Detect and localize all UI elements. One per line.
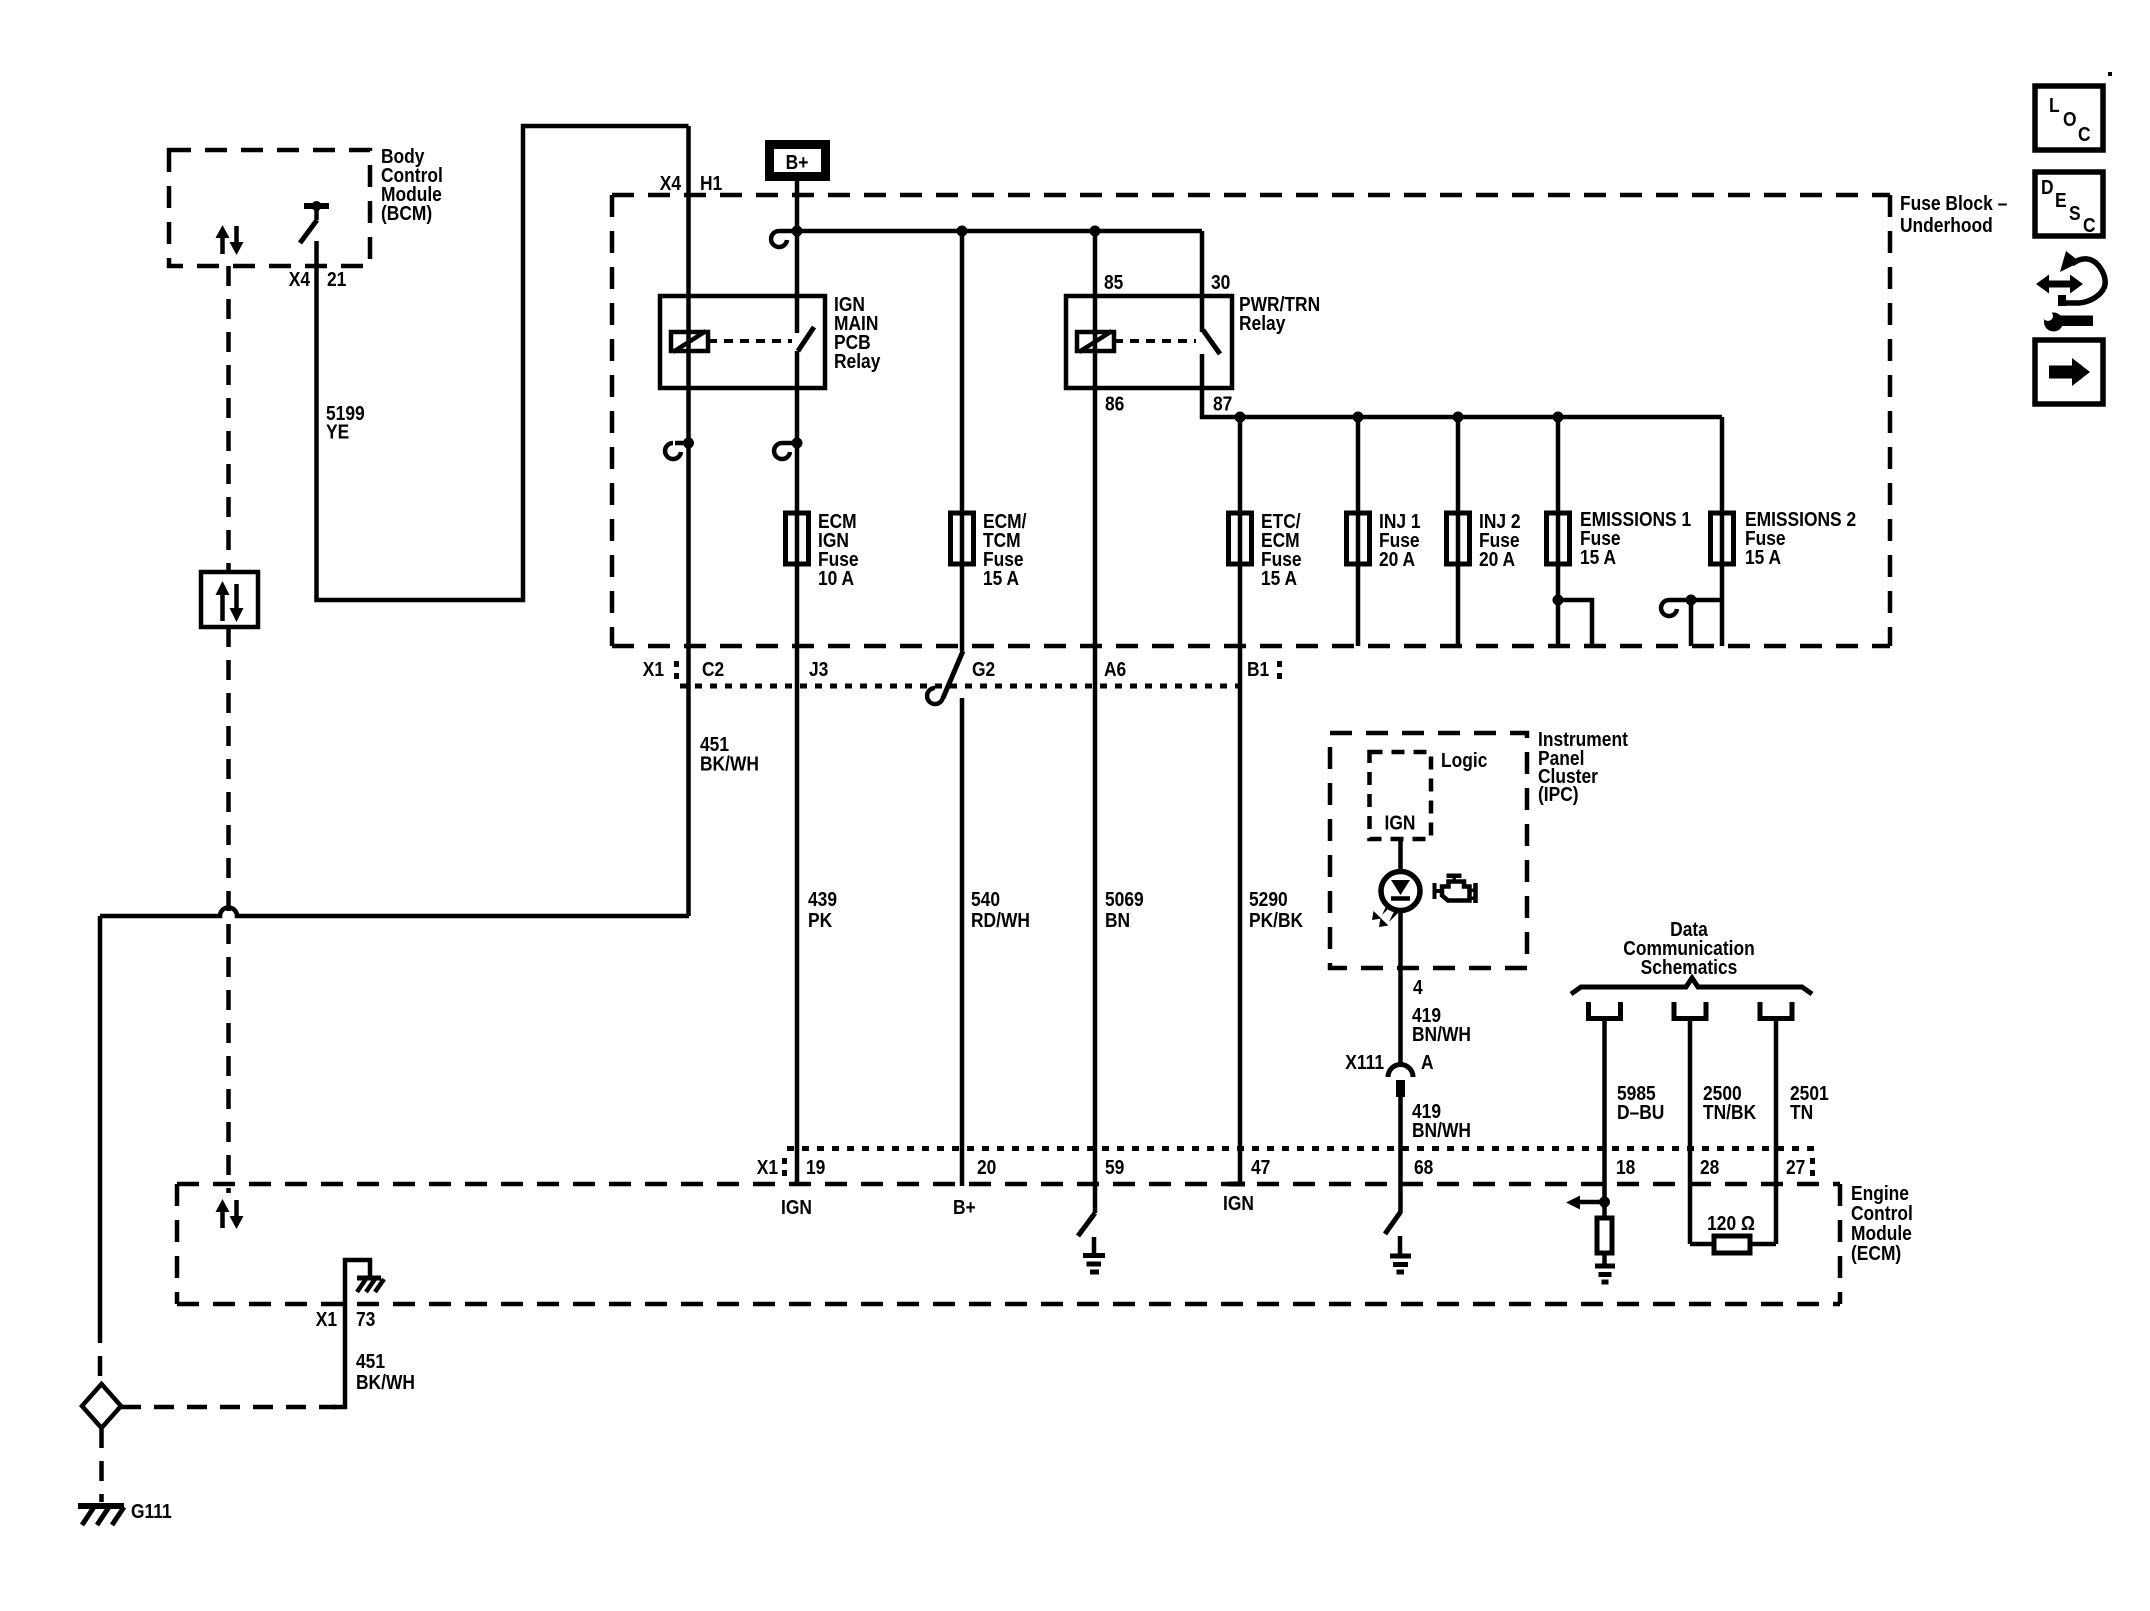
svg-text:L: L: [2049, 94, 2060, 116]
Engine Control Module (ECM) box: [177, 1184, 1840, 1304]
EMISSIONS1 branch stub: [1553, 595, 1593, 647]
svg-text:120 Ω: 120 Ω: [1707, 1212, 1755, 1234]
svg-text:IGN: IGN: [1385, 811, 1416, 833]
inline connector on G2 wire: [927, 651, 963, 704]
fuse F7 EMISSIONS 2 Fuse 15A: [1711, 513, 1734, 564]
next-page arrow icon: [2035, 340, 2103, 404]
resistor (pin 18 terminator): [1597, 1202, 1612, 1264]
svg-text:Underhood: Underhood: [1900, 214, 1993, 236]
junction dot B+: [792, 226, 803, 237]
fuse F3 ETC/ECM Fuse 15A: [1229, 513, 1252, 564]
svg-text:X1: X1: [757, 1156, 778, 1178]
svg-text:20 A: 20 A: [1379, 548, 1416, 570]
ground wire horizontal (451 BK/WH run) with hop over dashed wire: [100, 908, 689, 917]
wire INJ1: [1356, 417, 1361, 646]
svg-text:86: 86: [1105, 392, 1124, 414]
wire INJ2: [1456, 417, 1461, 646]
svg-text:Logic: Logic: [1441, 749, 1487, 771]
svg-text:X4: X4: [289, 268, 311, 290]
svg-text:A: A: [1421, 1051, 1434, 1073]
dashed serial data wire continues to ECM: [226, 627, 231, 1193]
ECM connector row dotted line: [787, 1146, 1818, 1151]
wire 2500 TN/BK to pin 28: [1688, 1020, 1693, 1244]
ground wire left vertical: [98, 916, 103, 1323]
svg-text:D–BU: D–BU: [1617, 1101, 1664, 1123]
svg-text:5069: 5069: [1105, 888, 1144, 910]
BCM serial-data arrows: [216, 225, 244, 255]
svg-text:4: 4: [1413, 976, 1423, 998]
svg-text:S: S: [2069, 202, 2081, 224]
svg-text:73: 73: [356, 1308, 375, 1330]
svg-text:451: 451: [356, 1350, 385, 1372]
wire B+ to bus: [795, 181, 800, 231]
svg-text:15 A: 15 A: [1261, 567, 1298, 589]
stray dot: [2108, 72, 2112, 76]
resistor 120 ohm (CAN terminator): [1690, 1236, 1776, 1253]
relay U1 IGN MAIN PCB Relay: [660, 296, 825, 388]
fuse F4 INJ 1 Fuse 20A: [1347, 513, 1370, 564]
svg-text:85: 85: [1104, 271, 1123, 293]
svg-text:439: 439: [808, 888, 837, 910]
svg-text:15 A: 15 A: [1580, 546, 1617, 568]
svg-text:C: C: [2083, 214, 2096, 236]
wire relay2 switch to 87 bus: [1202, 354, 1722, 417]
wire IGN to indicator: [1398, 839, 1403, 873]
wire X111 to ECM pin 68: [1398, 1096, 1403, 1213]
svg-text:10 A: 10 A: [818, 567, 855, 589]
svg-text:BN/WH: BN/WH: [1412, 1119, 1471, 1141]
svg-text:87: 87: [1213, 392, 1232, 414]
svg-text:PK/BK: PK/BK: [1249, 909, 1304, 931]
wire LED to pin 4: [1398, 910, 1403, 1066]
svg-text:BK/WH: BK/WH: [700, 752, 759, 774]
svg-text:15 A: 15 A: [983, 567, 1020, 589]
svg-text:27: 27: [1786, 1156, 1805, 1178]
svg-text:20 A: 20 A: [1479, 548, 1516, 570]
IGN logic box: [1370, 752, 1432, 839]
junction node G2 feed: [957, 226, 968, 237]
LOC icon: [2035, 86, 2103, 150]
svg-text:B+: B+: [786, 151, 809, 173]
svg-text:YE: YE: [326, 420, 349, 442]
svg-text:O: O: [2063, 108, 2077, 130]
tap hook on J3 wire: [774, 438, 802, 459]
svg-text:59: 59: [1105, 1156, 1124, 1178]
dashed wire splice to ECM pin 73: [121, 1405, 336, 1410]
svg-text:BN/WH: BN/WH: [1412, 1023, 1471, 1045]
serial data arrows box: [201, 572, 258, 627]
svg-text:5290: 5290: [1249, 888, 1288, 910]
EMISSIONS2 tap branch: [1661, 595, 1722, 647]
wire G2 from bus: [960, 231, 965, 651]
svg-text:B1: B1: [1247, 658, 1269, 680]
fuse F6 EMISSIONS 1 Fuse 15A: [1547, 513, 1570, 564]
svg-text:E: E: [2055, 189, 2067, 211]
wire relay1 switch out to J3: [795, 351, 800, 1186]
svg-text:30: 30: [1211, 271, 1230, 293]
Fuse Block - Underhood box: [612, 195, 1890, 646]
svg-text:Schematics: Schematics: [1641, 956, 1738, 978]
splice diamond: [82, 1384, 121, 1428]
wire bus to relay2 pin 30: [1200, 231, 1205, 332]
switch S (BCM internal): [300, 201, 329, 243]
wire EMISSIONS 1: [1556, 417, 1561, 646]
bus bar from B+: [779, 229, 1202, 234]
bus tap hook: [771, 231, 787, 247]
ground (pin 18): [1595, 1266, 1615, 1282]
svg-text:TN: TN: [1790, 1101, 1813, 1123]
svg-text:C: C: [2078, 123, 2091, 145]
svg-text:TN/BK: TN/BK: [1703, 1101, 1757, 1123]
wire B+ through relay1 switch: [795, 231, 800, 333]
Body Control Module (BCM) box: [169, 150, 370, 266]
svg-text:BK/WH: BK/WH: [356, 1371, 415, 1393]
inline connector X111 pin A: [1388, 1065, 1413, 1098]
off-page connector (2500): [1674, 1002, 1706, 1019]
Instrument Panel Cluster (IPC) box: [1330, 733, 1527, 968]
ground (pin 68): [1390, 1236, 1411, 1272]
wire 5985 D-BU to pin 18: [1602, 1020, 1607, 1202]
wire 2501 TN to pin 27: [1774, 1020, 1779, 1244]
svg-text:Relay: Relay: [1239, 312, 1286, 334]
svg-text:A6: A6: [1104, 658, 1126, 680]
wire B1 from 87 bus: [1238, 417, 1243, 1184]
svg-text:RD/WH: RD/WH: [971, 909, 1030, 931]
wire X4-H1 to C2 (relay1 coil): [686, 126, 691, 916]
junction node relay2 coil feed: [1090, 226, 1101, 237]
svg-text:(BCM): (BCM): [381, 202, 432, 224]
fuse F2 ECM/TCM Fuse 15A: [951, 513, 974, 564]
off-page connector (2501): [1760, 1002, 1792, 1019]
brace: [1571, 978, 1812, 994]
svg-text:540: 540: [971, 888, 1000, 910]
dashed wire splice to ground: [99, 1428, 104, 1502]
connector X1 row bottom dotted line: [680, 684, 1245, 689]
ground (pin 59): [1083, 1237, 1105, 1272]
dashed serial data wire (BCM to ECM): [226, 266, 231, 572]
engine icon (MIL symbol): [1435, 874, 1476, 904]
wire 5199 YE (BCM X4-21 to relay coil loop): [317, 126, 689, 600]
svg-text:G111: G111: [131, 1500, 172, 1522]
ECM internal case ground (pin 73): [345, 1260, 384, 1304]
wire EMISSIONS 2: [1720, 417, 1725, 646]
junction dots on 87 bus: [1235, 412, 1246, 423]
diagnostic icon (arrows and wrench): [2036, 251, 2105, 332]
pin 18 termination arrow: [1566, 1196, 1610, 1210]
svg-text:Fuse Block –: Fuse Block –: [1900, 192, 2007, 214]
ground G111: [78, 1506, 124, 1525]
relay U2 PWR/TRN Relay: [1066, 296, 1232, 388]
svg-text:X4: X4: [660, 172, 682, 194]
fuse F1 ECM IGN Fuse 10A: [786, 513, 809, 564]
wire coil feed 85: [1093, 231, 1098, 1213]
fuse F5 INJ 2 Fuse 20A: [1447, 513, 1470, 564]
svg-text:19: 19: [806, 1156, 825, 1178]
svg-text:(ECM): (ECM): [1851, 1242, 1901, 1264]
svg-text:IGN: IGN: [1223, 1192, 1254, 1214]
svg-text:68: 68: [1414, 1156, 1433, 1178]
DESC icon: [2035, 172, 2103, 236]
svg-text:X111: X111: [1345, 1051, 1384, 1073]
svg-text:J3: J3: [809, 658, 828, 680]
off-page connector (5985): [1589, 1002, 1621, 1019]
svg-text:X1: X1: [643, 658, 664, 680]
svg-text:Relay: Relay: [834, 350, 881, 372]
indicator LED (MIL): [1372, 872, 1420, 928]
svg-text:C2: C2: [702, 658, 724, 680]
svg-text:B+: B+: [953, 1196, 976, 1218]
battery feed B+: [770, 145, 826, 177]
svg-text:X1: X1: [316, 1308, 337, 1330]
svg-text:BN: BN: [1105, 909, 1130, 931]
pin 68 internal ground switch: [1385, 1212, 1401, 1234]
wire G2 to ECM pin 20: [960, 698, 965, 1186]
pin 47 end bar: [1228, 1182, 1245, 1187]
svg-text:IGN: IGN: [781, 1196, 812, 1218]
svg-text:D: D: [2041, 176, 2054, 198]
tap hook on C2 wire: [665, 438, 694, 459]
ECM serial data arrows: [216, 1199, 244, 1229]
svg-text:20: 20: [977, 1156, 996, 1178]
svg-text:47: 47: [1251, 1156, 1270, 1178]
svg-text:H1: H1: [700, 172, 722, 194]
svg-text:15 A: 15 A: [1745, 546, 1782, 568]
svg-text:G2: G2: [972, 658, 995, 680]
svg-text:21: 21: [327, 268, 346, 290]
svg-text:18: 18: [1616, 1156, 1635, 1178]
wire 451 BK/WH (ECM X1-73): [332, 1304, 345, 1407]
dashed wire to splice: [98, 1323, 103, 1386]
pin 59 internal ground switch: [1078, 1213, 1095, 1236]
svg-text:PK: PK: [808, 909, 833, 931]
svg-text:(IPC): (IPC): [1538, 783, 1579, 805]
svg-text:28: 28: [1700, 1156, 1719, 1178]
